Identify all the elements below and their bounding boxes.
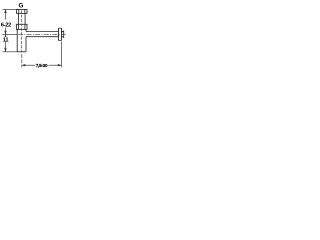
svg-text:6-22: 6-22 [1, 22, 11, 28]
svg-text:7,5-30: 7,5-30 [36, 63, 48, 68]
svg-text:G: G [19, 2, 24, 9]
